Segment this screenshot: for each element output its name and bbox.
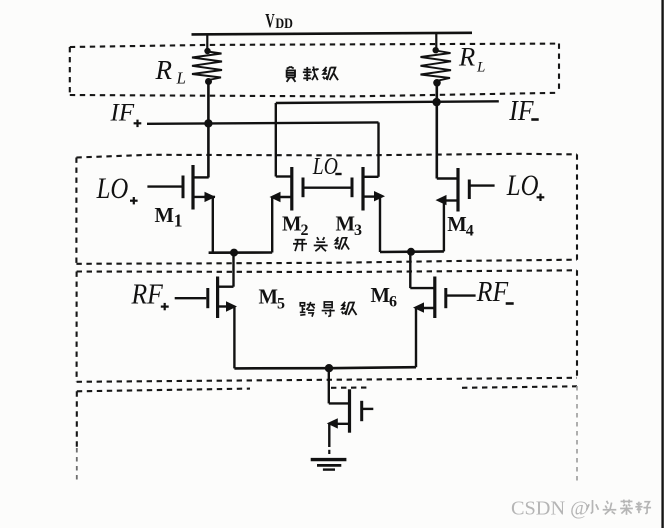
svg-text:V: V	[265, 9, 275, 32]
wire RL1 down to M1 drain	[207, 82, 210, 178]
ground symbol	[311, 460, 347, 470]
wire dash above ground	[328, 450, 330, 454]
node dot top of RL1	[204, 48, 210, 54]
junction dot IF+ node	[204, 119, 212, 127]
transistor M3	[352, 167, 380, 211]
svg-text:IF: IF	[110, 99, 135, 126]
wire RL2 down to M4 drain	[435, 83, 438, 179]
transistor M5	[175, 277, 235, 319]
VDD label	[265, 9, 293, 32]
svg-text:M: M	[155, 203, 175, 227]
svg-text:R: R	[458, 42, 475, 72]
wire LO- gate connection M2-M3	[303, 186, 352, 188]
svg-text:4: 4	[466, 223, 474, 240]
node dot bottom of RL2	[433, 79, 441, 87]
label 开关级 switching stage	[293, 240, 307, 251]
junction dot tail node	[325, 364, 333, 372]
bottom box faint right edge	[576, 386, 578, 481]
transistor M4	[437, 168, 470, 212]
label RL2	[458, 42, 485, 76]
wire down to M5 drain	[232, 253, 234, 287]
svg-text:IF: IF	[508, 95, 534, 127]
resistor RL2 zigzag	[421, 51, 452, 81]
svg-text:RF: RF	[476, 276, 509, 308]
label IF+	[110, 99, 142, 127]
svg-text:LO: LO	[312, 152, 338, 180]
M6 source arrow	[413, 302, 424, 312]
wire VDD to RL1	[206, 34, 208, 51]
VDD rail wire	[192, 33, 473, 35]
wire down to M6 drain	[409, 252, 411, 288]
junction dot IF- node	[432, 98, 440, 106]
svg-text:R: R	[155, 55, 173, 85]
svg-text:6: 6	[389, 294, 397, 311]
M5 source wire down	[233, 307, 235, 369]
M2 source wire down	[271, 197, 273, 253]
svg-text:2: 2	[301, 222, 309, 239]
M5 source arrow	[226, 301, 237, 311]
label M4	[447, 212, 474, 240]
label LO-	[312, 152, 342, 180]
wire IF- line	[276, 101, 499, 103]
label LO+ right	[506, 169, 544, 201]
page right border line	[661, 0, 663, 528]
label M2	[282, 211, 309, 239]
wire IF- corner down to M2 drain	[275, 103, 277, 177]
svg-text:M: M	[259, 284, 279, 308]
bottom bias dashed box (partial)	[77, 386, 577, 448]
resistor RL1 zigzag	[192, 52, 222, 81]
wire IF+ corner down to M3 drain	[377, 122, 379, 176]
label M6	[371, 283, 398, 311]
wire VDD to RL2	[435, 33, 437, 50]
svg-text:M: M	[447, 212, 467, 236]
M6 source wire down	[415, 308, 417, 367]
wire M5 source to tail node	[234, 367, 329, 370]
M2 source arrow	[270, 192, 281, 202]
bottom box left edge lower faded part	[76, 448, 78, 481]
switching stage dashed box (开关级)	[76, 154, 577, 264]
M1 source wire down	[212, 197, 214, 253]
svg-text:DD: DD	[275, 15, 293, 31]
label RF+	[131, 278, 169, 310]
svg-text:3: 3	[354, 222, 362, 239]
junction dot M3-M4 sources	[407, 248, 415, 256]
M3 source arrow	[374, 191, 385, 201]
node dot top of RL2	[433, 47, 439, 53]
label M1	[155, 203, 183, 231]
M1 source arrow	[205, 192, 216, 202]
M4 source wire down	[443, 201, 445, 252]
label M3	[336, 211, 363, 239]
Mb source wire down to ground	[328, 424, 330, 447]
svg-text:5: 5	[277, 296, 285, 313]
svg-text:M: M	[336, 211, 356, 235]
label 跨导级 transconductance stage	[300, 302, 315, 317]
svg-text:M: M	[371, 283, 391, 307]
node dot bottom of RL1	[205, 78, 212, 85]
transconductance stage dashed box (跨导级)	[77, 270, 577, 382]
label RF-	[476, 276, 514, 308]
svg-text:LO: LO	[506, 169, 539, 201]
M4 source arrow	[436, 195, 447, 205]
M3 source wire down	[379, 197, 381, 252]
svg-text:RF: RF	[131, 278, 164, 310]
junction dot M1-M2 sources	[230, 249, 238, 257]
bias transistor Mb	[329, 389, 374, 432]
svg-text:L: L	[476, 60, 485, 76]
Mb source arrow	[327, 418, 338, 428]
wire M3-M4 common source	[380, 250, 444, 253]
load stage label 负载级	[287, 67, 296, 82]
transistor M1	[147, 165, 215, 210]
wire IF+ line	[147, 122, 379, 123]
svg-text:1: 1	[174, 210, 183, 230]
wire tail node down to bias transistor	[328, 368, 330, 403]
svg-text:LO: LO	[96, 172, 129, 204]
label IF-	[508, 95, 538, 127]
label LO+ left	[96, 172, 138, 204]
M4 gate lead	[469, 184, 494, 186]
svg-text:CSDN @: CSDN @	[511, 498, 589, 520]
wire M6 source to tail node	[329, 367, 416, 368]
svg-text:M: M	[282, 211, 302, 235]
load stage dashed box (负载级)	[70, 44, 559, 97]
transistor M6	[410, 277, 475, 319]
label M5	[259, 284, 286, 312]
wire M1-M2 common source	[209, 251, 273, 254]
svg-text:L: L	[176, 69, 186, 88]
transistor M2	[272, 167, 303, 211]
label RL1	[155, 55, 186, 88]
